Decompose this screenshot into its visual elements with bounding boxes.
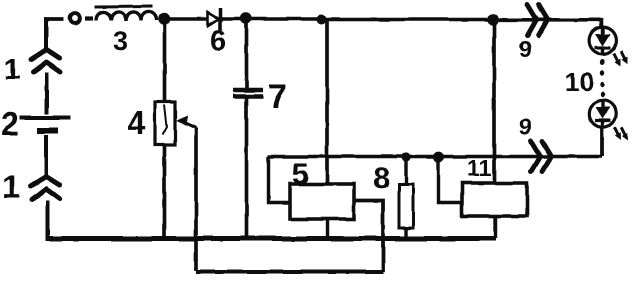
wire block5 bottom to bus — [326, 219, 329, 237]
wire capacitor to bus — [245, 98, 249, 237]
wire rail D to LED column — [497, 20, 601, 27]
battery G 2 short plate — [37, 128, 58, 134]
junction node A — [158, 13, 171, 26]
connector X 9 bottom chevrons — [531, 142, 551, 172]
connector X 1 top chevron pair — [31, 50, 60, 73]
terminal circle X1 — [70, 14, 80, 24]
svg-text:4: 4 — [127, 104, 146, 141]
wire rail A to diode — [168, 17, 207, 21]
LED HL2 light arrows — [611, 125, 624, 141]
wire left battery branch — [44, 18, 48, 50]
wire rail C to D — [321, 18, 488, 22]
LED HL2 cathode bar — [595, 118, 611, 121]
junction node B — [240, 13, 251, 24]
svg-text:1: 1 — [4, 53, 21, 86]
wire mid rail 156 — [268, 155, 602, 159]
connector X 1 bottom chevron pair — [31, 177, 61, 200]
connector X 9 top chevrons — [528, 5, 548, 36]
wire node D down to block 11 top — [492, 20, 496, 183]
battery G 2 long plate — [20, 116, 70, 120]
LED HL1 cathode bar — [595, 46, 611, 49]
wire resistor8 bottom lead — [404, 228, 407, 238]
svg-text:9: 9 — [519, 114, 532, 140]
LED HL1 10 circle — [589, 27, 616, 54]
rheostat wiper arrow — [183, 122, 196, 128]
diode VD 6 — [208, 13, 219, 26]
wire top rail left segment — [46, 17, 64, 20]
svg-text:9: 9 — [519, 36, 532, 62]
svg-text:11: 11 — [467, 155, 492, 181]
svg-text:5: 5 — [292, 156, 309, 191]
junction node E — [401, 152, 410, 161]
dashed link between LEDs — [600, 59, 605, 97]
resistor R 8 body — [399, 184, 413, 228]
svg-text:10: 10 — [565, 67, 594, 97]
LED HL2 triangle — [596, 107, 611, 119]
wire block5 right lead to lower loop — [354, 201, 383, 273]
LED HL1 light arrows — [611, 51, 624, 67]
wire dash after terminal — [85, 16, 93, 20]
wire block11 left lead — [439, 157, 463, 203]
LED HL1 lead inside — [601, 27, 604, 54]
wire rheostat body to bus — [163, 145, 167, 237]
wire wiper down to lower loop — [194, 128, 198, 271]
wire lower loop bottom — [196, 270, 383, 274]
inductor core line — [95, 5, 152, 9]
LED HL2 lead inside — [601, 101, 604, 128]
svg-text:6: 6 — [210, 25, 226, 57]
svg-text:3: 3 — [113, 26, 128, 56]
svg-text:2: 2 — [1, 105, 19, 142]
wire resistor8 top lead — [404, 157, 407, 184]
wire connector1 to battery — [45, 72, 49, 114]
wire LED2 bottom to mid rail — [600, 127, 604, 157]
junction node D — [487, 14, 499, 26]
svg-text:7: 7 — [268, 78, 287, 116]
wire node C down to block 5 top — [325, 20, 329, 185]
wire block5 left lead — [269, 157, 291, 203]
wire node A down to rheostat — [163, 21, 167, 102]
inductor L 3 coil — [96, 12, 156, 21]
wire diode to node B — [222, 17, 320, 21]
wire battery to connector1 bottom — [44, 135, 48, 176]
wire node B down to capacitor — [245, 21, 249, 88]
junction node F — [434, 152, 445, 163]
wire connector1 bottom to bus — [46, 200, 50, 236]
junction node C — [317, 15, 327, 25]
svg-text:1: 1 — [2, 168, 20, 205]
block U 5 — [290, 184, 354, 219]
wire block11 bottom to bus — [494, 216, 497, 238]
rheostat R 4 inner mark — [163, 105, 168, 135]
capacitor C 7 plates — [233, 88, 263, 92]
LED HL1 triangle — [595, 34, 610, 46]
block U 11 — [462, 183, 527, 216]
bottom bus wire — [46, 236, 497, 241]
rheostat R 4 body — [155, 102, 175, 145]
svg-text:8: 8 — [373, 162, 390, 195]
LED HL2 10 circle — [589, 100, 615, 126]
